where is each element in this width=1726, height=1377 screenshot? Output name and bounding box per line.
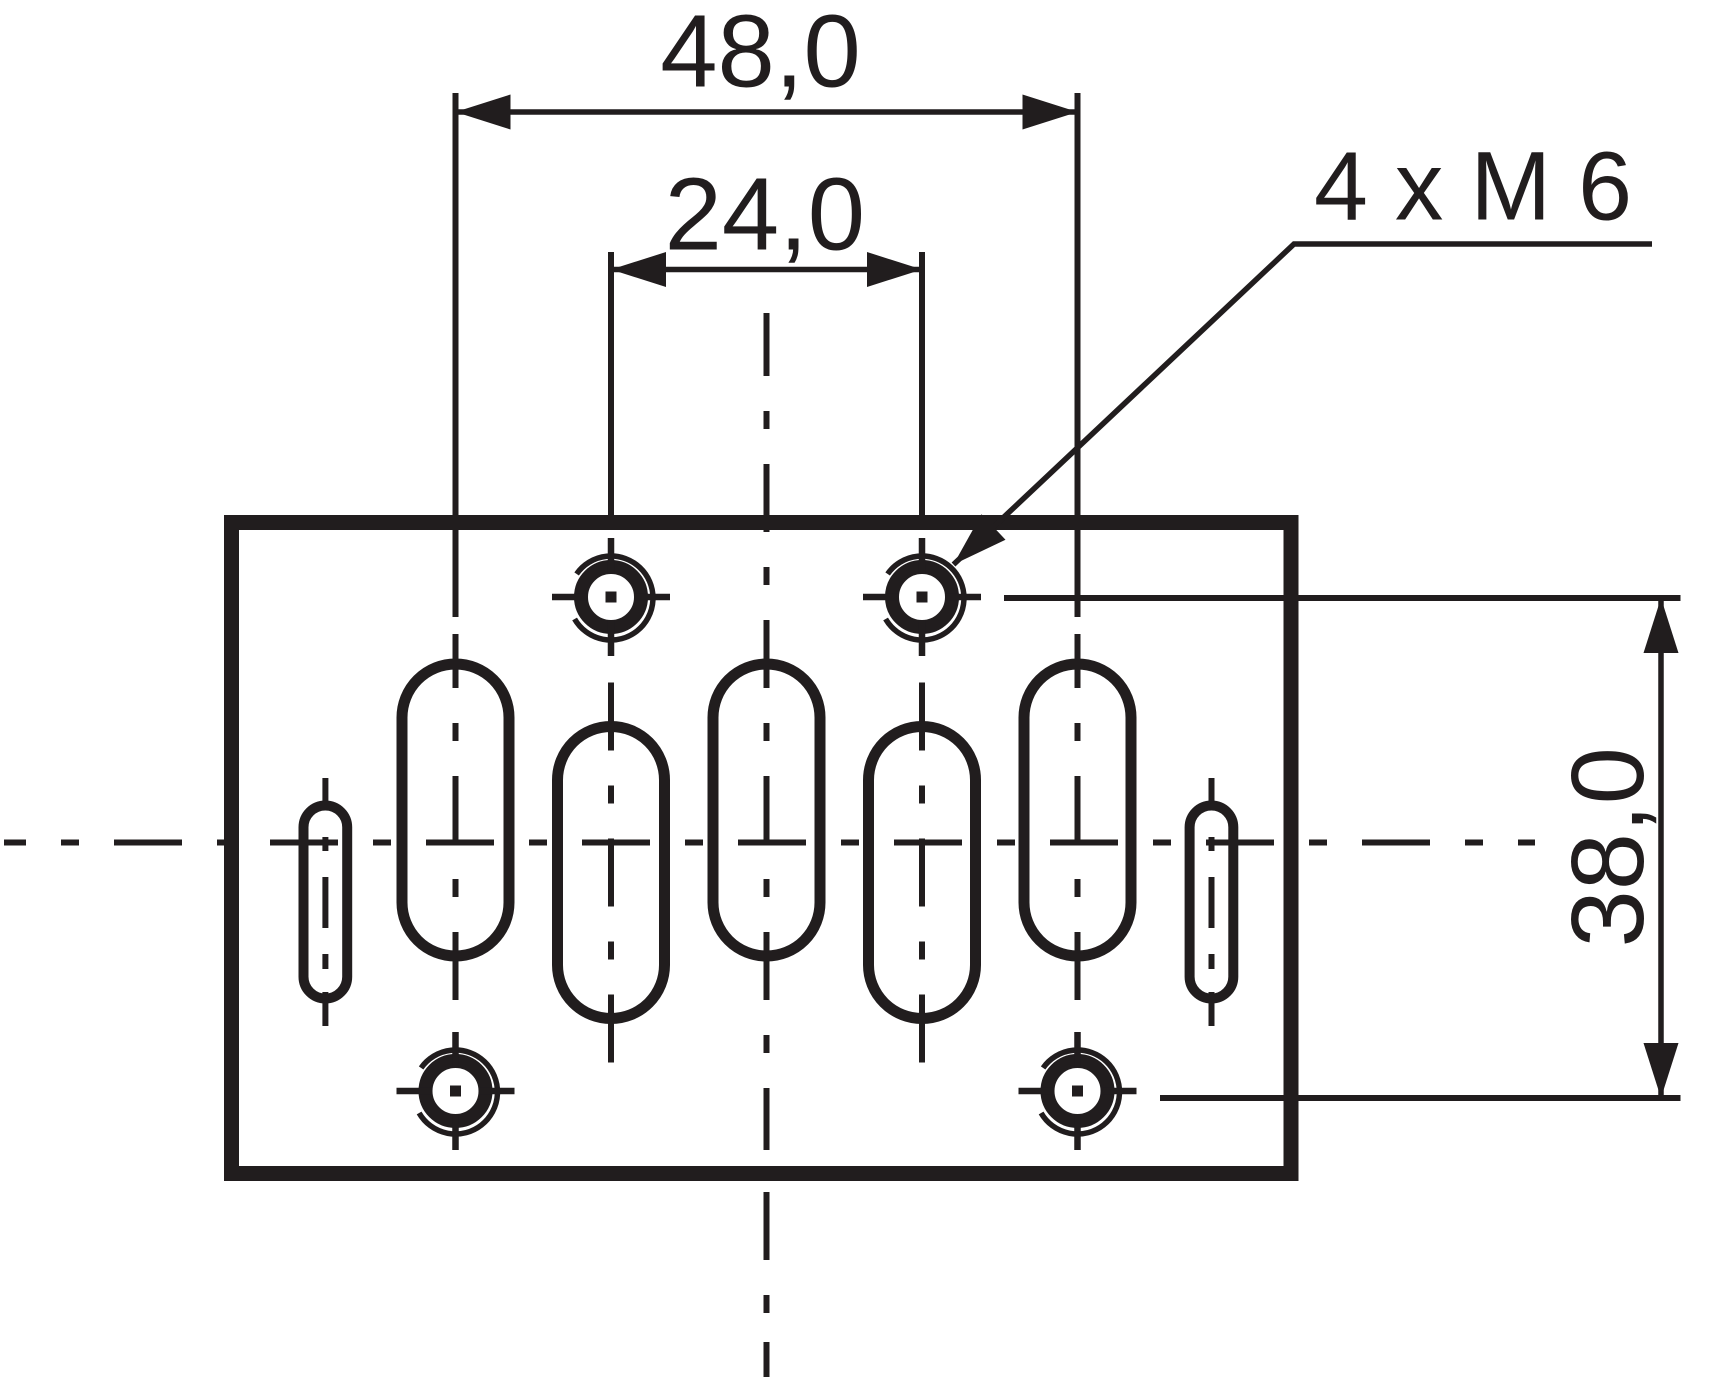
svg-text:4 x M 6: 4 x M 6 xyxy=(1314,132,1632,241)
svg-text:24,0: 24,0 xyxy=(665,157,865,272)
svg-text:38,0: 38,0 xyxy=(1550,747,1665,947)
svg-text:48,0: 48,0 xyxy=(660,0,860,109)
